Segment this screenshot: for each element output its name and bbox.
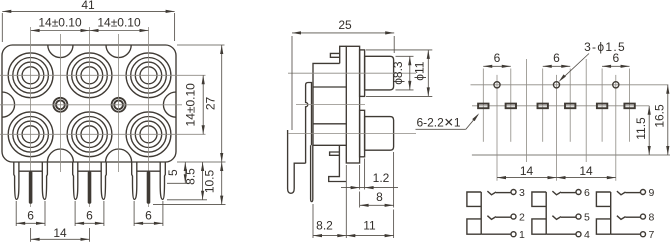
svg-text:6: 6 xyxy=(145,209,152,223)
dim φ8.3 extension lines xyxy=(396,56,414,90)
schematic group 2 switch lever pin 5 xyxy=(552,216,561,220)
schematic group 1 switch lever pin 3 xyxy=(487,191,496,195)
svg-text:14±0.10: 14±0.10 xyxy=(184,83,198,127)
side view body block xyxy=(313,63,346,145)
center signal pin column 1 xyxy=(29,171,33,204)
svg-text:6: 6 xyxy=(584,187,590,199)
dim 11.5 xyxy=(634,106,651,155)
dim 25 xyxy=(292,18,394,35)
dim 41 extension lines xyxy=(2,13,174,42)
schematic group 1 wire pin 1 xyxy=(481,233,511,235)
dim 14±0.10 right side vertical xyxy=(184,75,205,134)
scallop right edge xyxy=(163,92,176,117)
svg-text:ϕ11: ϕ11 xyxy=(413,61,427,81)
hole φ1.5 number 3 xyxy=(613,82,619,88)
centerline vertical column 3 xyxy=(148,27,150,207)
schematic group 2 contact circle pin 5 xyxy=(576,214,581,219)
dim 14 footprint right xyxy=(557,164,616,179)
svg-text:2: 2 xyxy=(519,212,525,224)
dim φ8.3 xyxy=(391,56,411,90)
svg-text:8.5: 8.5 xyxy=(184,168,198,185)
dim 10.5 xyxy=(203,162,224,205)
schematic group 1 contact circle pin 1 xyxy=(511,232,516,237)
dim 14 bottom xyxy=(31,226,90,241)
side view upper barrel xyxy=(365,56,394,90)
footprint pad column centerline 4 xyxy=(569,69,571,142)
ground pin left of column 3 xyxy=(132,162,137,199)
dim 14 bottom extension lines xyxy=(31,228,90,242)
dim 6 footprint group 3 xyxy=(602,51,630,68)
schematic group 2 wire pin 6 xyxy=(561,192,576,194)
dim 14 footprint left xyxy=(497,164,557,179)
pad 2.2x1 number 4 xyxy=(565,104,575,109)
side view centerline middle xyxy=(296,104,365,106)
mounting hole H2 xyxy=(112,98,126,112)
schematic group 3 pin number 9 xyxy=(648,187,654,199)
dim 16.5 xyxy=(653,85,670,155)
footprint pad column centerline 1 xyxy=(482,69,484,142)
footprint bottom reference line xyxy=(472,154,670,156)
side view rear mounting leg xyxy=(288,130,306,193)
dim 14±0.10 top left xyxy=(31,16,90,33)
jack boss bottom edge column 1 xyxy=(19,170,42,172)
svg-text:8: 8 xyxy=(648,212,654,224)
schematic group 1 wire pin 2 xyxy=(496,216,511,218)
svg-text:6: 6 xyxy=(86,209,93,223)
footprint pad column centerline 2 xyxy=(510,69,512,142)
centerline horizontal row 1 xyxy=(0,74,206,76)
RCA jack J6 concentric rings at (148.5,134.3) xyxy=(126,112,171,157)
side view ground lug tab xyxy=(330,152,340,155)
svg-text:4: 4 xyxy=(584,229,590,241)
dim 14±0.10 top right xyxy=(90,16,149,33)
schematic group 2 switch lever pin 6 xyxy=(552,191,561,195)
schematic group 1 switch lever pin 2 xyxy=(487,216,496,220)
RCA jack J2 concentric rings at (89.5,75.3) xyxy=(67,53,112,98)
dim 1.2 extension lines xyxy=(360,159,365,190)
dim 1.2 xyxy=(341,171,398,189)
schematic group 1 pin number 1 xyxy=(519,229,525,241)
dim φ11 xyxy=(413,50,430,97)
dim 6 pins column 3 xyxy=(134,209,163,225)
schematic group 1 wire pin 3 xyxy=(496,192,511,194)
dim 8.2 xyxy=(313,218,346,237)
footprint mid column line 2 xyxy=(585,59,587,162)
scallop top-left on body top edge xyxy=(48,45,73,58)
svg-text:14: 14 xyxy=(579,164,593,178)
label 3-φ1.5 with leader xyxy=(557,40,626,83)
centerline vertical column 1 xyxy=(30,27,32,207)
schematic group 3 pin number 7 xyxy=(648,229,654,241)
schematic group 2 contact circle pin 4 xyxy=(576,232,581,237)
scallop top-right on body top edge xyxy=(106,45,131,58)
dim 6 pins column 1 extension lines xyxy=(16,201,45,226)
ground pin right of column 3 xyxy=(160,162,165,199)
schematic group 2 wire pin 4 xyxy=(546,233,576,235)
footprint horizontal centerline through holes xyxy=(471,84,669,86)
dim 25 extension lines xyxy=(292,36,394,130)
schematic group 1 contact circle pin 2 xyxy=(511,214,516,219)
dim 8 xyxy=(360,190,394,207)
ground pin right of column 1 xyxy=(42,162,47,199)
svg-text:6: 6 xyxy=(553,51,560,65)
footprint pad column centerline 3 xyxy=(542,69,544,142)
dim φ11 extension lines xyxy=(366,50,432,97)
svg-text:6-2.2✕1: 6-2.2✕1 xyxy=(416,116,460,130)
svg-text:14±0.10: 14±0.10 xyxy=(38,16,82,30)
dim 6 footprint group 1 xyxy=(483,51,511,68)
svg-text:6: 6 xyxy=(27,209,34,223)
svg-text:14: 14 xyxy=(53,226,67,240)
svg-text:16.5: 16.5 xyxy=(653,104,667,128)
pad 2.2x1 number 2 xyxy=(506,104,516,109)
ground pin left of column 1 xyxy=(14,162,19,199)
schematic group 2 contact circle pin 6 xyxy=(576,190,581,195)
svg-text:1: 1 xyxy=(519,229,525,241)
footprint pad column centerline 5 xyxy=(601,69,603,142)
svg-text:7: 7 xyxy=(648,229,654,241)
center signal pin column 2 xyxy=(88,171,92,204)
schematic group 3 ground bracket xyxy=(596,192,610,234)
schematic group 1 contact circle pin 3 xyxy=(511,190,516,195)
svg-text:10.5: 10.5 xyxy=(203,169,217,193)
schematic group 1 pin number 3 xyxy=(519,187,525,199)
jack boss bottom edge column 3 xyxy=(137,170,160,172)
ground pin right of column 2 xyxy=(101,162,106,199)
svg-text:ϕ8.3: ϕ8.3 xyxy=(391,61,405,85)
schematic group 1 pin number 2 xyxy=(519,212,525,224)
schematic group 3 wire pin 9 xyxy=(626,192,641,194)
center signal pin column 3 xyxy=(147,171,151,204)
svg-text:14±0.10: 14±0.10 xyxy=(97,16,141,30)
svg-text:8.2: 8.2 xyxy=(316,218,333,232)
mounting hole H1 xyxy=(53,98,67,112)
svg-text:14: 14 xyxy=(520,164,534,178)
side view top tab pin xyxy=(330,53,339,57)
RCA jack J5 concentric rings at (89.5,134.3) xyxy=(67,112,112,157)
centerline horizontal row 2 xyxy=(0,133,206,135)
centerline vertical mounting hole 1 xyxy=(59,34,61,172)
dim 41 xyxy=(2,0,174,13)
footprint mid column line 1 xyxy=(526,59,528,162)
schematic group 2 pin number 6 xyxy=(584,187,590,199)
svg-text:11.5: 11.5 xyxy=(634,117,648,140)
centerline horizontal middle xyxy=(0,104,182,106)
dim 10.5 extension line xyxy=(153,204,226,206)
side view top hook tab xyxy=(340,46,347,63)
dim 6 pins column 2 xyxy=(75,209,104,225)
footprint horizontal centerline through pads xyxy=(472,105,649,107)
RCA jack J4 concentric rings at (30.6,134.3) xyxy=(8,112,53,157)
pad 2.2x1 number 5 xyxy=(597,104,607,109)
side view upper jack boss disc xyxy=(360,50,365,97)
dim 27 xyxy=(204,45,224,162)
side view ground lug body xyxy=(329,145,347,181)
dim 5 extension line xyxy=(167,182,190,184)
dim 8 extension lines xyxy=(360,152,394,208)
svg-text:3: 3 xyxy=(519,187,525,199)
centerline vertical mounting hole 2 xyxy=(118,34,120,172)
footprint hole column centerline 2 xyxy=(556,75,558,181)
dim 6 footprint group 2 xyxy=(543,51,571,68)
schematic group 3 contact circle pin 9 xyxy=(641,190,646,195)
scallop bottom-right on body bottom edge xyxy=(106,149,132,162)
svg-text:25: 25 xyxy=(338,18,352,32)
schematic group 3 wire pin 7 xyxy=(611,233,641,235)
svg-text:9: 9 xyxy=(648,187,654,199)
svg-text:27: 27 xyxy=(204,97,218,111)
schematic group 3 switch lever pin 8 xyxy=(617,216,626,220)
footprint hole column centerline 1 xyxy=(496,75,498,181)
svg-text:11: 11 xyxy=(363,218,376,232)
scallop bottom-left on body bottom edge xyxy=(47,149,73,162)
svg-text:3-ϕ1.5: 3-ϕ1.5 xyxy=(584,40,626,54)
scallop left edge xyxy=(2,92,15,117)
schematic group 2 pin number 5 xyxy=(584,212,590,224)
schematic group 2 ground bracket xyxy=(532,192,546,234)
svg-text:5: 5 xyxy=(584,212,590,224)
side view centerline top barrel xyxy=(288,72,416,74)
pad 2.2x1 number 6 xyxy=(624,104,634,109)
schematic group 3 contact circle pin 7 xyxy=(641,232,646,237)
side view center pin lug xyxy=(311,145,313,201)
schematic group 3 wire pin 8 xyxy=(626,216,641,218)
ground pin left of column 2 xyxy=(73,162,78,199)
schematic group 2 pin number 4 xyxy=(584,229,590,241)
schematic group 1 ground bracket xyxy=(467,192,481,234)
hole φ1.5 number 1 xyxy=(494,82,500,88)
pad 2.2x1 number 1 xyxy=(478,104,488,109)
hole φ1.5 number 2 xyxy=(553,82,559,88)
svg-text:8: 8 xyxy=(376,190,383,204)
schematic group 3 contact circle pin 8 xyxy=(641,214,646,219)
dim 6 pins column 3 extension lines xyxy=(134,201,163,226)
schematic group 3 pin number 8 xyxy=(648,212,654,224)
dim 27 extension lines xyxy=(177,45,226,162)
svg-text:1.2: 1.2 xyxy=(373,171,390,185)
svg-text:6: 6 xyxy=(494,51,501,65)
label 6-2.2×1 with leader xyxy=(416,112,481,129)
jack boss bottom edge column 2 xyxy=(78,170,101,172)
dim 8.2 extension lines xyxy=(313,165,346,238)
dim 8.5 xyxy=(184,162,205,200)
centerline vertical column 2 xyxy=(89,27,91,207)
dim 5 xyxy=(166,162,187,183)
pad 2.2x1 number 3 xyxy=(538,104,548,109)
footprint pad column centerline 6 xyxy=(629,69,631,142)
side view rear bracket plate xyxy=(306,83,312,164)
RCA jack J3 concentric rings at (148.5,75.3) xyxy=(126,53,171,98)
side view front flange plate xyxy=(346,46,359,163)
dim 11 bottom extension line xyxy=(393,210,395,239)
side view centerline bottom barrel xyxy=(288,132,416,134)
side view lower barrel xyxy=(365,117,394,151)
schematic group 3 switch lever pin 9 xyxy=(617,191,626,195)
RCA jack J1 concentric rings at (30.6,75.3) xyxy=(8,53,53,98)
front view: connector body outline xyxy=(2,45,176,162)
footprint hole column centerline 3 xyxy=(615,75,617,181)
side view lower jack boss disc xyxy=(360,110,365,157)
dim 6 pins column 2 extension lines xyxy=(75,201,104,226)
schematic group 2 wire pin 5 xyxy=(561,216,576,218)
svg-text:5: 5 xyxy=(166,169,180,176)
dim 6 pins column 1 xyxy=(16,209,45,225)
dim 8.5 extension line xyxy=(167,199,207,201)
svg-text:41: 41 xyxy=(81,0,95,12)
dim 11 bottom xyxy=(346,218,393,237)
